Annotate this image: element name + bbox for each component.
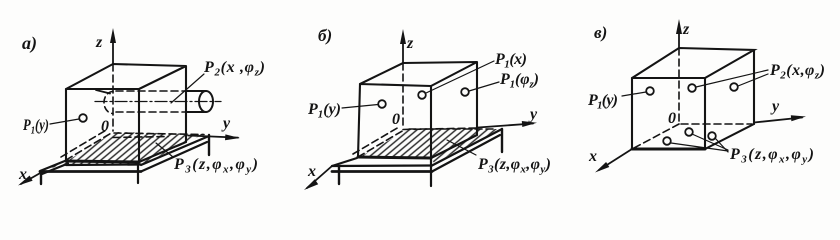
y-axis (panel б) <box>403 128 478 130</box>
svg-text:P1(y): P1(y) <box>307 101 341 121</box>
plate right corner tick <box>501 129 503 152</box>
svg-text:P3(z,φx,φy): P3(z,φx,φy) <box>729 146 814 166</box>
cube top face (panel в) <box>632 48 754 78</box>
svg-text:P1(φz): P1(φz) <box>499 71 539 91</box>
leader P3 to bottom-right circle (panel в) <box>715 138 728 152</box>
z-axis (panel в) <box>678 27 680 48</box>
cylinder end cap ellipse <box>199 91 213 112</box>
leader P2 (panel a) <box>171 74 204 103</box>
hidden bottom-left edge (dashed, panel в) <box>634 124 679 148</box>
z-axis (panel a) <box>112 37 114 64</box>
cylinder body <box>186 91 206 112</box>
cylinder center line (dash-dot) <box>95 101 221 103</box>
svg-text:z: z <box>682 21 690 38</box>
box (panel a) front face <box>66 89 139 162</box>
svg-text:P1(y): P1(y) <box>22 117 49 137</box>
box right-back vertical edge <box>185 66 187 142</box>
cube (panel в) front face <box>632 78 705 149</box>
marker circle P1(x) (panel б) <box>418 91 426 99</box>
svg-text:б): б) <box>318 26 332 45</box>
svg-text:y: y <box>770 98 780 115</box>
leader P1(y) (panel б) <box>342 105 378 109</box>
svg-text:P3(z,φx,φy): P3(z,φx,φy) <box>477 156 551 176</box>
svg-text:0: 0 <box>668 110 676 127</box>
box (panel б) front face <box>358 84 431 158</box>
plate top-left edge <box>40 161 66 172</box>
plate left leg <box>40 171 42 184</box>
leader P1(phi z) (panel б) <box>469 82 499 91</box>
hidden plate back edge / y-axis dashed <box>114 133 204 135</box>
leader P1(x) (panel б) <box>426 61 494 93</box>
svg-text:P1(x): P1(x) <box>494 51 527 71</box>
pencil double-stroke on top edge <box>96 90 110 94</box>
hidden box bottom-left edge (dashed pair, panel б) <box>358 130 404 157</box>
box top face (panel б) <box>360 62 477 86</box>
y-axis (panel в) <box>754 118 802 123</box>
y-axis (panel a) <box>188 136 238 138</box>
plate left edge lower parallel <box>42 164 68 175</box>
svg-text:x: x <box>307 163 316 180</box>
svg-text:P1(y): P1(y) <box>587 92 618 112</box>
box top face <box>66 64 186 89</box>
hidden plate back-left edge (dashed) <box>113 137 168 138</box>
plate left leg <box>338 167 340 184</box>
box bottom-right edge <box>139 142 186 162</box>
svg-text:y: y <box>528 106 538 123</box>
plate right corner tick <box>208 135 210 155</box>
box bottom-right edge (panel б) <box>431 135 477 158</box>
marker circle bottom-left (panel в) <box>663 137 671 145</box>
cylinder hidden top line (dashed) <box>116 90 186 92</box>
marker circle P1(phi z) (panel б) <box>461 88 469 96</box>
plate front-right leg <box>430 158 432 186</box>
leader P3 to bottom-left circle (panel в) <box>671 143 728 151</box>
plate bottom-right edge <box>432 135 500 172</box>
z-axis (panel б) <box>402 37 404 63</box>
box bottom front edge (panel б) <box>358 157 431 158</box>
hidden bottom-back edge (dashed, panel в) <box>681 123 752 125</box>
plate right edge <box>141 136 209 165</box>
plate bottom-right edge <box>141 142 207 172</box>
x-axis (panel в) <box>599 149 632 170</box>
svg-text:0: 0 <box>101 118 109 135</box>
x-axis (panel a) <box>21 172 42 184</box>
cube bottom front edge (panel в) <box>632 148 705 151</box>
marker circle front-left (panel в) <box>646 87 654 95</box>
leader P3 (panel б) <box>447 140 476 155</box>
plate front-right leg <box>137 164 139 183</box>
plate right edge <box>432 129 502 166</box>
cylinder hidden bottom line (dashed) <box>116 111 186 113</box>
svg-text:а): а) <box>22 33 37 54</box>
svg-text:P2(x,φz): P2(x,φz) <box>769 62 825 82</box>
cube right-back vertical edge (panel в) <box>753 50 755 124</box>
marker circle right face (panel в) <box>730 83 738 91</box>
plate front top edge <box>66 163 141 166</box>
leader P2 to front circle (panel в) <box>696 70 768 87</box>
cylinder hidden back cap (dashed half-ellipse) <box>104 92 113 114</box>
svg-text:в): в) <box>594 23 607 42</box>
svg-text:x: x <box>18 166 27 183</box>
svg-text:P3(z,φx,φy): P3(z,φx,φy) <box>173 156 258 176</box>
hatched plate top (panel б) <box>358 129 500 163</box>
hidden box bottom-left edge (dashed pair) <box>66 132 113 160</box>
marker circle bottom-mid (panel в) <box>685 128 693 136</box>
x-axis (panel б) <box>307 166 332 188</box>
plate (panel б) front bottom edge <box>332 170 432 173</box>
svg-text:z: z <box>406 35 414 52</box>
marker circle P1(y) (panel б) <box>378 100 386 108</box>
leader P3 to bottom-mid circle (panel в) <box>692 134 728 150</box>
hatched plate top (panel a) <box>42 132 204 170</box>
box right-back vertical edge (panel б) <box>476 62 478 135</box>
svg-text:x: x <box>588 148 597 165</box>
plate (panel a) front bottom edge <box>40 170 141 173</box>
svg-text:P2(x ,φz): P2(x ,φz) <box>203 59 265 79</box>
plate front top edge <box>332 164 432 167</box>
plate top-left edge <box>332 158 357 166</box>
leader P2 to right circle (panel в) <box>738 74 768 86</box>
leader P1 (panel a) <box>50 119 79 124</box>
leader P3 (panel a) <box>156 143 173 157</box>
marker circle P1 (panel a) <box>79 114 87 122</box>
hidden plate back edge (dashed, panel б) <box>409 128 497 130</box>
marker circle front-mid (panel в) <box>688 84 696 92</box>
marker circle bottom-right (panel в) <box>708 132 716 140</box>
box bottom front edge <box>66 161 139 162</box>
cube bottom-right edge (panel в) <box>705 124 754 149</box>
svg-text:0: 0 <box>392 111 400 128</box>
svg-text:z: z <box>95 34 103 51</box>
leader P1(y) (panel в) <box>622 92 646 96</box>
svg-text:y: y <box>221 115 231 132</box>
